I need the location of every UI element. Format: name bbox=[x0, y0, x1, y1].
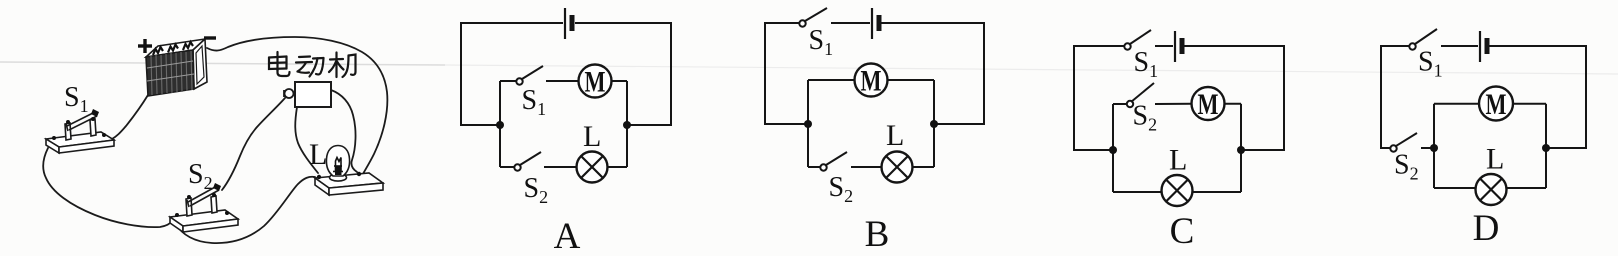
svg-text:S1: S1 bbox=[1418, 47, 1443, 81]
svg-text:L: L bbox=[309, 138, 327, 171]
svg-text:D: D bbox=[1473, 208, 1500, 249]
svg-text:C: C bbox=[1170, 211, 1195, 252]
svg-text:S2: S2 bbox=[1394, 150, 1419, 184]
svg-text:S1: S1 bbox=[64, 82, 89, 116]
svg-text:B: B bbox=[865, 214, 890, 255]
svg-text:L: L bbox=[583, 120, 601, 153]
svg-text:L: L bbox=[886, 119, 904, 152]
svg-text:M: M bbox=[861, 65, 882, 98]
svg-text:M: M bbox=[585, 66, 606, 99]
svg-text:L: L bbox=[1486, 143, 1504, 176]
svg-text:S2: S2 bbox=[1133, 101, 1158, 135]
svg-text:S2: S2 bbox=[829, 172, 854, 206]
svg-text:L: L bbox=[1169, 144, 1187, 177]
svg-text:M: M bbox=[1198, 88, 1219, 121]
svg-text:S1: S1 bbox=[522, 85, 547, 119]
svg-text:S1: S1 bbox=[809, 25, 834, 59]
svg-text:S1: S1 bbox=[1134, 47, 1159, 81]
svg-text:S2: S2 bbox=[188, 159, 213, 193]
svg-text:M: M bbox=[1486, 88, 1507, 121]
svg-text:A: A bbox=[554, 216, 581, 256]
svg-text:S2: S2 bbox=[524, 173, 549, 207]
